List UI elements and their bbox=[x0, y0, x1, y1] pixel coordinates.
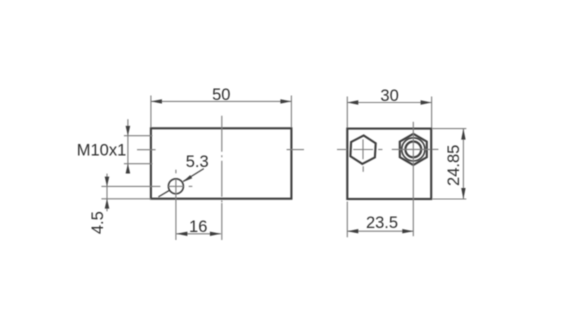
svg-text:50: 50 bbox=[212, 86, 230, 104]
dimension 30 extension lines bbox=[347, 97, 431, 128]
dimension 50 line bbox=[151, 99, 292, 103]
dimension 24.85 extension lines bbox=[433, 129, 467, 199]
M10x1 thread hole top line bbox=[124, 135, 152, 137]
dimension 4.5 line with outside arrows bbox=[105, 174, 110, 212]
M10x1 dimension line with outside arrows bbox=[126, 119, 131, 173]
cavity axis dash-dot center line bbox=[221, 116, 223, 240]
label 5.3 bbox=[186, 153, 209, 171]
label 23.5 bbox=[366, 214, 398, 232]
M10x1 thread hole bottom line bbox=[124, 163, 152, 165]
svg-text:23.5: 23.5 bbox=[366, 214, 398, 232]
label 50 bbox=[212, 86, 230, 104]
label M10x1 bbox=[77, 142, 127, 160]
label 24.85 (rotated) bbox=[445, 145, 463, 186]
svg-text:24.85: 24.85 bbox=[445, 145, 463, 186]
hex socket recess (left hexagon) bbox=[350, 136, 375, 164]
nut outer circle bbox=[402, 138, 425, 161]
nut inner thread circle bbox=[405, 142, 421, 158]
dimension 16 line with arrows bbox=[176, 232, 221, 236]
dimension 23.5 left extension line bbox=[346, 202, 348, 238]
5.3 drain hole circle bbox=[168, 179, 183, 194]
nut horizontal center line bbox=[392, 148, 431, 150]
label 4.5 (rotated) bbox=[89, 211, 107, 234]
svg-text:4.5: 4.5 bbox=[89, 211, 107, 234]
5.3 hole vertical center line bbox=[175, 170, 177, 240]
dimension 50 extension lines bbox=[151, 96, 292, 128]
dimension 30 line bbox=[347, 100, 431, 104]
right view body outline bbox=[347, 129, 431, 199]
left view body outline bbox=[151, 128, 292, 198]
label 16 bbox=[189, 218, 207, 236]
svg-text:16: 16 bbox=[189, 218, 207, 236]
svg-text:M10x1: M10x1 bbox=[77, 142, 127, 160]
svg-text:30: 30 bbox=[380, 87, 398, 105]
4.5 bottom extension line bbox=[101, 198, 150, 200]
label 30 bbox=[380, 87, 398, 105]
svg-text:5.3: 5.3 bbox=[186, 153, 209, 171]
M10x1 hole axis center line bbox=[137, 149, 156, 151]
common hole axis center line segments bbox=[287, 148, 439, 150]
nut vertical center line bbox=[412, 122, 414, 236]
dimension 23.5 line with arrows bbox=[347, 229, 413, 233]
hex nut port (right hexagon) bbox=[400, 134, 427, 165]
5.3 leader line with arrow bbox=[158, 169, 203, 197]
hex socket crosshair bbox=[353, 139, 373, 171]
dimension 24.85 line bbox=[461, 129, 465, 199]
5.3 hole horizontal center line bbox=[101, 185, 192, 187]
